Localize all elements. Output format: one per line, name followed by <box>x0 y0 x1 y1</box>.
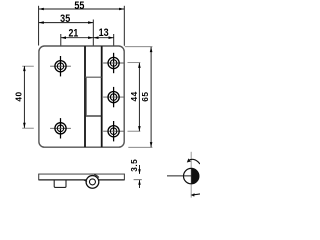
svg-text:55: 55 <box>74 0 84 12</box>
svg-text:40: 40 <box>13 91 23 101</box>
svg-text:3.5: 3.5 <box>129 159 139 172</box>
svg-text:35: 35 <box>60 13 70 25</box>
svg-text:44: 44 <box>129 91 139 101</box>
svg-text:13: 13 <box>99 27 109 39</box>
svg-text:21: 21 <box>69 28 79 40</box>
svg-text:65: 65 <box>140 91 150 101</box>
